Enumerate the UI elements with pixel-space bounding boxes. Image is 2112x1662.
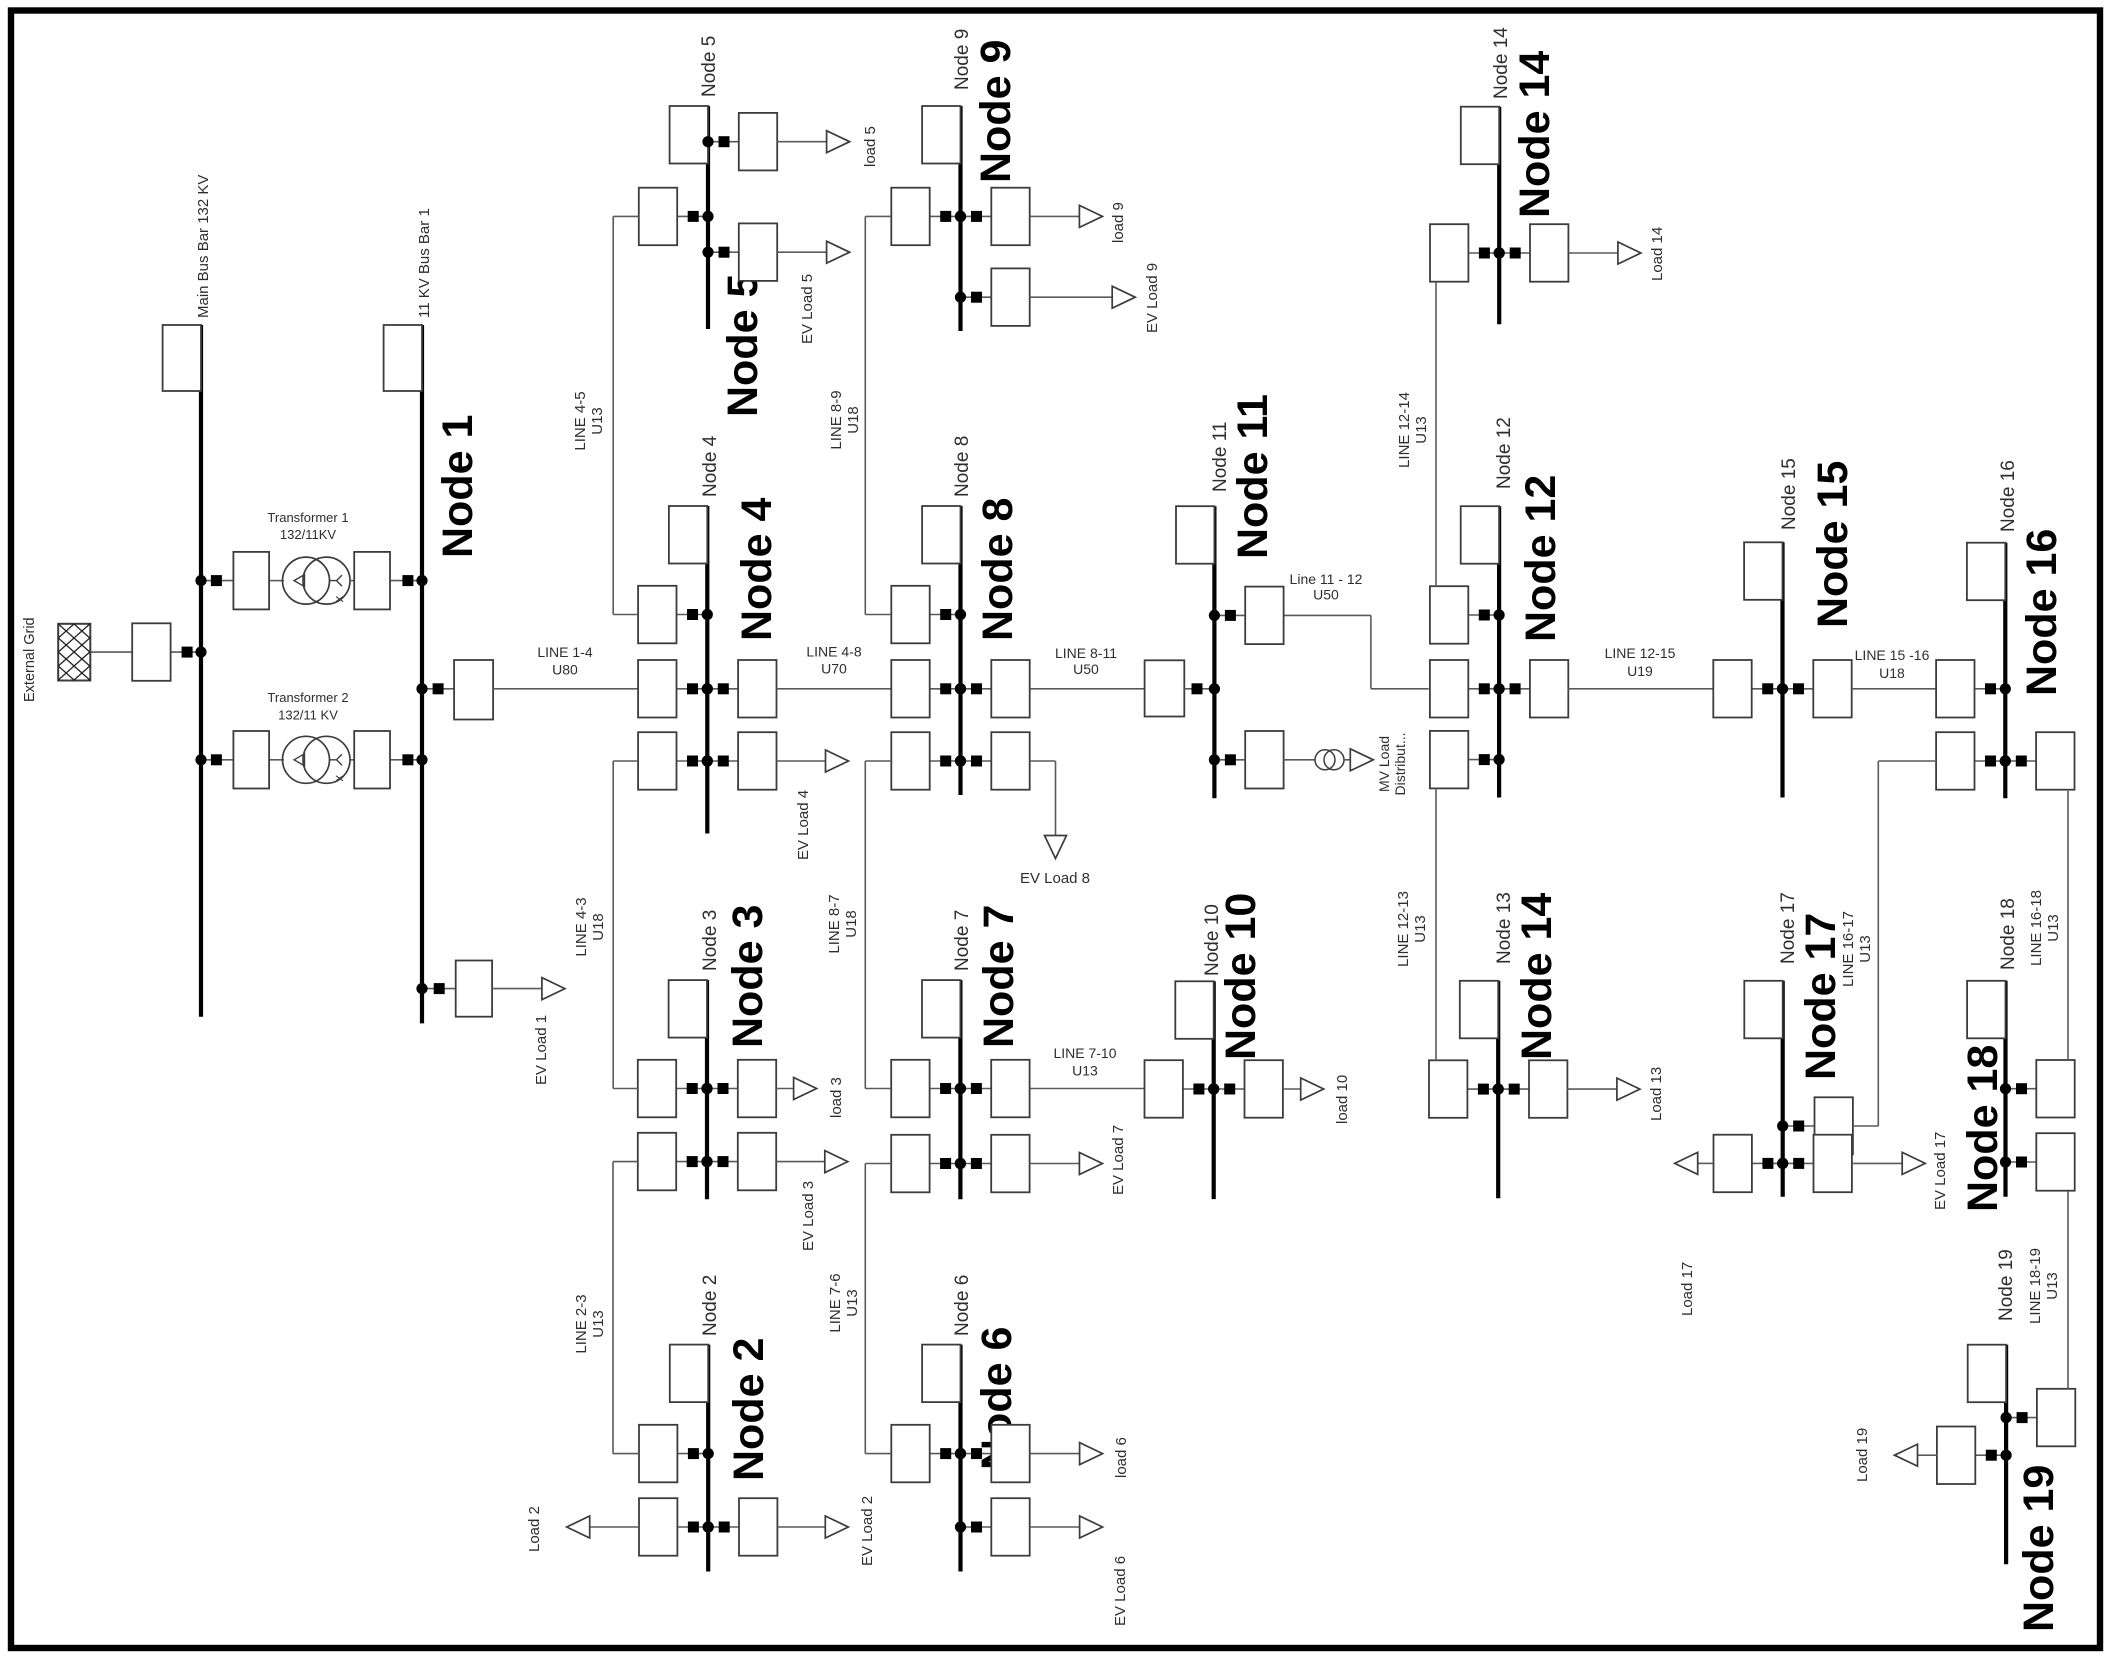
switch Node 16 LINE 16-18 breaker — [2000, 732, 2075, 790]
load EV Load 4 — [777, 750, 849, 772]
switch Node 12 trunk breaker — [1430, 660, 1505, 718]
label LINE 1-4 U80 — [537, 644, 592, 678]
bus Node 17 — [1781, 981, 1785, 1197]
svg-text:11 KV Bus Bar 1: 11 KV Bus Bar 1 — [416, 208, 433, 318]
wire LINE 12-13 — [1435, 788, 1437, 1060]
svg-text:Node 17: Node 17 — [1797, 913, 1845, 1080]
svg-text:MV Load: MV Load — [1376, 736, 1392, 792]
switch Node 7 EV Load 7 switch — [955, 1135, 1030, 1193]
bus Node 3 — [705, 980, 709, 1199]
svg-text:Node 10: Node 10 — [1217, 893, 1265, 1060]
label EV Load 6 — [1112, 1556, 1129, 1626]
wire LINE 12-15 — [1568, 688, 1716, 690]
bus Node 7 — [958, 980, 962, 1199]
terminal box Node 9 — [922, 106, 960, 164]
wire LINE 8-7 — [865, 761, 891, 1089]
svg-text:Node 2: Node 2 — [725, 1338, 773, 1481]
load load 10 — [1283, 1078, 1324, 1100]
svg-text:Load 17: Load 17 — [1679, 1262, 1696, 1316]
node label Node 19 (small) — [1996, 1249, 2017, 1321]
svg-text:Node 7: Node 7 — [952, 910, 973, 971]
terminal box Node 8 — [922, 506, 960, 564]
terminal box Node 19 — [1968, 1345, 2006, 1403]
svg-text:Node 8: Node 8 — [974, 498, 1022, 641]
wire Transformer 1 primary — [201, 580, 284, 582]
wire LINE 2-3 — [613, 1162, 639, 1454]
label EV Load 1 — [533, 1015, 550, 1085]
switch Node 17 EV Load 17 switch — [1777, 1135, 1852, 1193]
bus Node 2 — [706, 1345, 710, 1572]
svg-text:LINE 2-3: LINE 2-3 — [573, 1294, 590, 1353]
svg-text:Node 12: Node 12 — [1494, 417, 1515, 489]
node label Node 16 (small) — [1998, 460, 2019, 532]
switch Node 8 trunk breaker (LINE 4-8) — [891, 660, 966, 718]
label EV Load 7 — [1110, 1125, 1127, 1195]
switch Node 16 trunk breaker — [1936, 660, 2011, 718]
svg-text:Node 15: Node 15 — [1779, 458, 1800, 530]
switch Node 6 EV Load 6 switch — [955, 1498, 1030, 1556]
bus label 11 KV Bus Bar 1 — [416, 208, 433, 318]
svg-text:EV Load 6: EV Load 6 — [1112, 1556, 1129, 1626]
switch Node 8 LINE 8-9 breaker — [891, 586, 966, 644]
terminal box 11 KV Bus Bar 1 (Node 1) — [384, 325, 422, 391]
terminal box Node 12 — [1461, 506, 1499, 564]
switch Node 5 load 5 switch — [702, 113, 777, 170]
node label Node 4 (large) — [733, 498, 781, 641]
svg-text:LINE 7-10: LINE 7-10 — [1053, 1045, 1116, 1061]
svg-text:Transformer 2: Transformer 2 — [267, 690, 348, 705]
svg-text:Transformer 1: Transformer 1 — [267, 510, 348, 525]
bus 11 KV Bus Bar 1 (Node 1) — [420, 325, 424, 1023]
switch Node 2 LINE 2-3 breaker — [639, 1425, 714, 1483]
switch Node 10 LINE 7-10 breaker — [1145, 1060, 1220, 1118]
bus Node 15 — [1780, 542, 1784, 797]
svg-text:LINE 12-15: LINE 12-15 — [1605, 645, 1676, 661]
switch Node 19 LINE 18-19 breaker — [2001, 1389, 2076, 1447]
svg-text:LINE 18-19: LINE 18-19 — [2027, 1248, 2044, 1324]
switch Node 3 LINE 4-3 breaker — [638, 1060, 713, 1118]
label Load 17 — [1679, 1262, 1696, 1316]
node label Node 13 (large) — [1513, 893, 1561, 1060]
label EV Load 9 — [1144, 263, 1161, 333]
switch Node 7 LINE 7-6 breaker — [891, 1135, 966, 1193]
svg-text:LINE 8-9: LINE 8-9 — [828, 390, 845, 449]
svg-text:LINE 12-13: LINE 12-13 — [1395, 891, 1412, 967]
node label Node 14 (large) — [1511, 51, 1559, 218]
svg-text:U13: U13 — [1412, 915, 1429, 943]
switch Node 4 LINE 4-5 breaker — [638, 586, 713, 644]
switch external grid — [132, 623, 206, 681]
svg-text:EV Load 3: EV Load 3 — [800, 1181, 817, 1251]
svg-text:Node 4: Node 4 — [733, 498, 781, 641]
bus Node 8 — [958, 506, 962, 795]
svg-text:Load 19: Load 19 — [1854, 1428, 1871, 1482]
load EV Load 5 — [777, 241, 849, 263]
wire LINE 18-19 — [2067, 1191, 2069, 1390]
svg-text:EV Load 5: EV Load 5 — [799, 274, 816, 344]
node label Node 1 — [434, 415, 482, 558]
node label Node 6 (small) — [952, 1275, 973, 1336]
svg-text:Node 13: Node 13 — [1494, 892, 1515, 964]
switch Node 5 EV Load 5 switch — [702, 223, 777, 281]
switch Node 4 trunk breaker (LINE 1-4) — [638, 660, 713, 718]
load load 5 — [777, 131, 849, 153]
label EV Load 17 — [1932, 1132, 1949, 1210]
svg-text:Node 1: Node 1 — [434, 415, 482, 558]
wire LINE 1-4 — [493, 688, 638, 690]
svg-text:Node 3: Node 3 — [700, 910, 721, 971]
label LINE 8-7 U18 — [826, 894, 860, 953]
switch Node 11 Line 11-12 switch — [1209, 587, 1284, 645]
bus Node 11 — [1212, 506, 1216, 798]
load Load 2 — [567, 1516, 639, 1538]
svg-text:EV Load 4: EV Load 4 — [795, 790, 812, 860]
svg-text:U13: U13 — [2044, 1272, 2061, 1300]
node label Node 15 (small) — [1779, 458, 1800, 530]
bus Node 4 — [705, 506, 709, 834]
svg-text:U13: U13 — [2045, 914, 2062, 942]
label LINE 2-3 U13 — [573, 1294, 607, 1353]
svg-text:U80: U80 — [552, 662, 578, 678]
svg-text:U19: U19 — [1627, 663, 1653, 679]
svg-text:U50: U50 — [1073, 661, 1099, 677]
switch Node 2 EV Load 2 switch — [703, 1498, 778, 1556]
switch Transformer 2 HV side — [195, 731, 269, 789]
node label Node 10 (large) — [1217, 893, 1265, 1060]
svg-text:Node 12: Node 12 — [1517, 475, 1565, 642]
node label Node 4 (small) — [700, 435, 721, 497]
wire LINE 4-5 — [613, 216, 639, 614]
node label Node 3 (small) — [700, 910, 721, 971]
load EV Load 8 (down arrow) — [1030, 761, 1067, 859]
label Load 14 — [1649, 227, 1666, 281]
node label Node 5 (large) — [719, 274, 767, 417]
bus label Main Bus Bar 132 KV — [195, 175, 212, 318]
svg-text:External Grid: External Grid — [22, 617, 38, 702]
label LINE 16-18 U13 — [2028, 890, 2062, 966]
switch Node 18 LINE 18-19 breaker — [2000, 1133, 2075, 1191]
svg-text:LINE 15 -16: LINE 15 -16 — [1855, 647, 1930, 663]
label LINE 12-14 U13 — [1396, 392, 1430, 468]
svg-text:Node 14: Node 14 — [1491, 27, 1512, 99]
svg-text:U18: U18 — [1879, 665, 1905, 681]
wire Transformer 2 primary — [201, 759, 284, 761]
svg-text:U13: U13 — [1413, 416, 1430, 444]
terminal box Node 7 — [922, 980, 960, 1038]
svg-text:Node 6: Node 6 — [952, 1275, 973, 1336]
wire Line 11 - 12 — [1284, 615, 1428, 688]
label LINE 7-6 U13 — [827, 1273, 861, 1332]
svg-text:Node 11: Node 11 — [1210, 422, 1231, 492]
svg-text:Node 18: Node 18 — [1959, 1045, 2007, 1212]
label LINE 4-5 U13 — [572, 391, 606, 450]
label load 9 — [1110, 202, 1127, 243]
load EV Load 3 — [776, 1151, 848, 1173]
switch Node 4 LINE 4-3 breaker — [638, 732, 713, 790]
node label Node 3 (large) — [724, 905, 772, 1048]
label Transformer 1 — [267, 510, 348, 542]
label load 5 — [862, 126, 879, 167]
svg-text:Node 14: Node 14 — [1511, 51, 1559, 218]
terminal box Node 14 — [1461, 107, 1499, 165]
wire LINE 16-18 — [2067, 791, 2069, 1060]
svg-text:Node 18: Node 18 — [1998, 898, 2019, 970]
node label Node 11 (large) — [1229, 394, 1277, 559]
svg-text:Load 13: Load 13 — [1648, 1067, 1665, 1121]
label LINE 4-3 U18 — [573, 897, 607, 956]
switch Transformer 2 LV side — [354, 731, 427, 789]
terminal box Node 15 — [1744, 542, 1782, 600]
svg-text:Node 15: Node 15 — [1809, 461, 1857, 628]
switch Node 12 LINE 12-14 breaker — [1430, 586, 1505, 644]
switch Node 15 trunk switch (LINE 15-16) — [1777, 660, 1852, 718]
switch Node 12 trunk switch (LINE 12-15) — [1494, 660, 1569, 718]
terminal box Node 4 — [669, 506, 707, 564]
wire external grid to main bus — [90, 651, 201, 653]
switch Node 14 LINE 12-14 breaker — [1430, 224, 1505, 282]
svg-text:132/11KV: 132/11KV — [280, 527, 336, 542]
node label Node 15 (large) — [1809, 461, 1857, 628]
load EV Load 7 — [1030, 1153, 1103, 1175]
label EV Load 4 — [795, 790, 812, 860]
svg-text:Node 14: Node 14 — [1513, 893, 1561, 1060]
svg-text:U13: U13 — [1857, 935, 1874, 963]
terminal box Node 11 — [1176, 506, 1214, 564]
switch Node 7 trunk switch (LINE 7-10) — [955, 1060, 1030, 1118]
load EV Load 2 — [777, 1516, 848, 1538]
node label Node 8 (large) — [974, 498, 1022, 641]
node label Node 11 (small) — [1210, 422, 1231, 492]
wire LINE 7-10 — [1030, 1088, 1145, 1090]
external grid source — [56, 580, 92, 724]
svg-text:Node 16: Node 16 — [2018, 529, 2066, 696]
switch Node 14 Load 14 switch — [1494, 224, 1569, 282]
node label Node 6 (large) — [973, 1327, 1021, 1470]
switch Node 3 load 3 switch — [701, 1060, 776, 1118]
switch Transformer 1 LV side — [354, 552, 427, 610]
wire LINE 16-17 — [1853, 761, 1936, 1126]
label LINE 15 -16 U18 — [1855, 647, 1930, 681]
svg-text:LINE 16-18: LINE 16-18 — [2028, 890, 2045, 966]
load Load 14 — [1568, 242, 1641, 264]
terminal box Node 3 — [669, 980, 707, 1038]
node label Node 9 (large) — [972, 40, 1020, 183]
switch Node 9 EV Load 9 switch — [955, 268, 1030, 326]
switch Node 18 LINE 16-18 breaker — [2000, 1060, 2075, 1118]
node label Node 17 (large) — [1797, 913, 1845, 1080]
svg-text:Node 5: Node 5 — [699, 36, 720, 97]
node label Node 7 (large) — [975, 905, 1023, 1048]
switch Node 8 trunk switch (LINE 8-11) — [955, 660, 1030, 718]
bus Node 19 — [2004, 1345, 2008, 1565]
svg-text:LINE 4-3: LINE 4-3 — [573, 897, 590, 956]
terminal box Node 13 — [1460, 981, 1498, 1039]
switch Node 17 Load 17 breaker — [1714, 1135, 1789, 1193]
svg-text:EV Load 9: EV Load 9 — [1144, 263, 1161, 333]
svg-text:Main Bus Bar 132 KV: Main Bus Bar 132 KV — [195, 175, 212, 318]
wire LINE 4-8 — [777, 688, 892, 690]
label Load 13 — [1648, 1067, 1665, 1121]
wire LINE 8-11 — [1030, 688, 1145, 690]
switch Node 4 EV Load 4 switch — [702, 732, 777, 790]
switch Node 9 load 9 switch — [955, 188, 1030, 246]
svg-text:LINE 12-14: LINE 12-14 — [1396, 392, 1413, 468]
svg-text:U18: U18 — [845, 406, 862, 434]
node label Node 9 (small) — [952, 29, 973, 90]
bus Node 13 — [1496, 981, 1500, 1199]
svg-text:Node 7: Node 7 — [975, 905, 1023, 1048]
svg-text:Node 16: Node 16 — [1998, 460, 2019, 532]
terminal box Node 10 — [1175, 981, 1213, 1039]
switch Node 7 LINE 8-7 breaker — [891, 1060, 966, 1118]
svg-text:load 10: load 10 — [1334, 1075, 1351, 1124]
switch Node 1 EV Load 1 — [416, 961, 492, 1017]
svg-text:EV Load 1: EV Load 1 — [533, 1015, 550, 1085]
load load 6 — [1030, 1443, 1103, 1465]
svg-text:LINE 8-7: LINE 8-7 — [826, 894, 843, 953]
svg-text:Node 11: Node 11 — [1229, 394, 1277, 559]
svg-text:Node 17: Node 17 — [1778, 892, 1799, 964]
node label Node 17 (small) — [1778, 892, 1799, 964]
svg-text:Node 19: Node 19 — [2015, 1465, 2063, 1632]
bus Main Bus Bar 132 KV — [199, 325, 203, 1017]
svg-text:U18: U18 — [843, 910, 860, 938]
label EV Load 3 — [800, 1181, 817, 1251]
wire LINE 15 -16 — [1852, 688, 1937, 690]
svg-text:Node 4: Node 4 — [700, 435, 721, 497]
switch Node 8 EV Load 8 switch — [955, 732, 1030, 790]
switch Node 10 load 10 switch — [1208, 1060, 1283, 1118]
load EV Load 1 — [492, 978, 565, 1000]
node label Node 2 (small) — [700, 1275, 721, 1336]
svg-text:load 3: load 3 — [828, 1077, 845, 1118]
terminal box Node 17 — [1744, 981, 1782, 1039]
node label Node 18 (large) — [1959, 1045, 2007, 1212]
bus Node 16 — [2003, 543, 2007, 799]
load Load 19 — [1895, 1444, 1937, 1466]
wire LINE 4-3 — [613, 761, 638, 1089]
svg-text:load 5: load 5 — [862, 126, 879, 167]
svg-text:Node 2: Node 2 — [700, 1275, 721, 1336]
node label Node 14 (small) — [1491, 27, 1512, 99]
node label Node 10 (small) — [1202, 904, 1223, 976]
node label Node 7 (small) — [952, 910, 973, 971]
switch Node 13 Load 13 switch — [1493, 1060, 1568, 1118]
svg-text:load 9: load 9 — [1110, 202, 1127, 243]
label Transformer 2 — [267, 690, 348, 723]
bus Node 14 — [1497, 107, 1501, 325]
svg-text:U13: U13 — [1072, 1063, 1098, 1079]
label LINE 12-15 U19 — [1605, 645, 1676, 679]
node label Node 12 (small) — [1494, 417, 1515, 489]
label LINE 8-9 U18 — [828, 390, 862, 449]
svg-text:LINE 16-17: LINE 16-17 — [1840, 911, 1857, 987]
switch Node 3 LINE 2-3 breaker — [638, 1133, 713, 1191]
switch Node 11 MV Load switch — [1209, 731, 1284, 789]
wire LINE 8-9 — [865, 216, 891, 614]
node label Node 18 (small) — [1998, 898, 2019, 970]
switch Node 6 load 6 switch — [955, 1425, 1030, 1483]
svg-text:U13: U13 — [589, 407, 606, 435]
switch Node 4 trunk switch (LINE 4-8) — [702, 660, 777, 718]
load EV Load 6 — [1030, 1516, 1103, 1538]
terminal box Node 18 — [1967, 981, 2005, 1039]
label LINE 8-11 U50 — [1055, 645, 1117, 677]
svg-text:U18: U18 — [590, 913, 607, 941]
switch Node 19 Load 19 breaker — [1937, 1427, 2012, 1485]
terminal box Node 2 — [670, 1345, 708, 1403]
svg-text:Node 9: Node 9 — [972, 40, 1020, 183]
switch Node 8 LINE 8-7 breaker — [891, 732, 966, 790]
label EV Load 5 — [799, 274, 816, 344]
switch Node 5 LINE 4-5 breaker — [639, 188, 714, 246]
svg-text:load 6: load 6 — [1113, 1437, 1130, 1478]
svg-text:EV Load 8: EV Load 8 — [1020, 870, 1090, 887]
label LINE 4-8 U70 — [806, 644, 861, 677]
svg-text:LINE 4-8: LINE 4-8 — [806, 644, 861, 660]
node label Node 8 (small) — [952, 436, 973, 497]
node label Node 12 (large) — [1517, 475, 1565, 642]
svg-text:EV Load 7: EV Load 7 — [1110, 1125, 1127, 1195]
terminal box Node 6 — [922, 1345, 960, 1403]
bus Node 5 — [706, 106, 710, 329]
svg-text:132/11 KV: 132/11 KV — [278, 708, 338, 723]
label LINE 16-17 U13 — [1840, 911, 1874, 987]
svg-text:Load 14: Load 14 — [1649, 227, 1666, 281]
label Load 19 — [1854, 1428, 1871, 1482]
switch Node 17 LINE 16-17 incoming — [1777, 1097, 1853, 1154]
node label Node 19 (large) — [2015, 1465, 2063, 1632]
svg-text:LINE 7-6: LINE 7-6 — [827, 1273, 844, 1332]
label EV Load 2 — [859, 1496, 876, 1566]
bus Node 18 — [2003, 981, 2007, 1197]
transformer Transformer 1 — [283, 557, 351, 604]
terminal box Node 5 — [670, 106, 708, 164]
load EV Load 9 — [1030, 286, 1136, 308]
switch Node 9 LINE 8-9 breaker — [891, 188, 966, 246]
load Load 17 — [1675, 1152, 1714, 1174]
terminal box Main Bus Bar 132 KV — [163, 325, 201, 391]
switch Node 3 EV Load 3 switch — [701, 1133, 776, 1191]
load EV Load 17 — [1852, 1152, 1925, 1174]
label load 3 — [828, 1077, 845, 1118]
label LINE 12-13 U13 — [1395, 891, 1429, 967]
load load 9 — [1030, 205, 1103, 227]
switch Node 11 LINE 8-11 incoming — [1145, 660, 1220, 716]
label load 6 — [1113, 1437, 1130, 1478]
wire LINE 12-14 — [1435, 282, 1437, 587]
svg-text:EV Load 2: EV Load 2 — [859, 1496, 876, 1566]
svg-text:Distribut...: Distribut... — [1392, 732, 1408, 795]
switch Node 2 Load 2 breaker — [639, 1498, 714, 1556]
wire LINE 7-6 — [865, 1164, 891, 1454]
svg-text:U70: U70 — [821, 661, 847, 677]
bus Node 9 — [958, 106, 962, 331]
svg-text:LINE 8-11: LINE 8-11 — [1055, 645, 1117, 661]
label Load 2 — [526, 1506, 543, 1552]
switch Node 15 trunk breaker — [1713, 660, 1788, 718]
label MV Load Distribut... — [1376, 732, 1408, 795]
bus Node 6 — [958, 1345, 962, 1572]
svg-text:Node 19: Node 19 — [1996, 1249, 2017, 1321]
label LINE 7-10 U13 — [1053, 1045, 1116, 1079]
switch Transformer 1 HV side — [195, 552, 269, 610]
svg-text:Load 2: Load 2 — [526, 1506, 543, 1552]
load load 3 — [776, 1078, 816, 1100]
node label Node 5 (small) — [699, 36, 720, 97]
svg-text:Node 3: Node 3 — [724, 905, 772, 1048]
transformer Transformer 2 — [283, 736, 351, 783]
